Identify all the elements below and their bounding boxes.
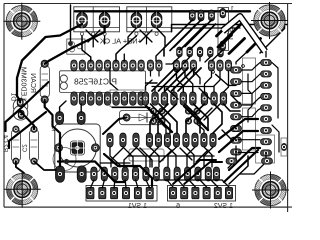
- trimmer P1 outline: [55, 124, 100, 172]
- wire thick BR9: [224, 150, 258, 182]
- label SV2 (mirrored): [214, 203, 233, 210]
- resistor R5: [40, 60, 49, 103]
- wire thick BR5: [184, 162, 222, 184]
- capacitor C1 outline: [53, 148, 76, 171]
- wire thick TR1: [218, 22, 244, 48]
- svg-text:LED03MM: LED03MM: [20, 67, 27, 100]
- pad row mid: [107, 133, 216, 147]
- wire pad stubs mid band: [146, 71, 194, 92]
- wire thick TR2: [229, 39, 245, 54]
- wire block to IC: [82, 36, 147, 61]
- terminal pad P1: [76, 12, 89, 29]
- wire thick L5: [45, 100, 60, 166]
- wire thick L3b: [9, 112, 46, 148]
- capacitor C5 pads: [150, 108, 165, 124]
- resistor R3: [11, 126, 20, 164]
- label R2: [2, 134, 8, 152]
- svg-text:+NE+ AL CK: +NE+ AL CK: [100, 37, 142, 46]
- IC U1 label PIC16F258 (mirrored): [74, 76, 117, 86]
- terminal pad P4: [150, 12, 163, 29]
- header SV2 pads: [169, 187, 232, 199]
- wire thick BR4: [173, 160, 216, 184]
- capacitor pads bottom: [56, 166, 87, 183]
- header J3 pads: [189, 10, 214, 21]
- wire BR7: [240, 152, 266, 174]
- svg-text:1 SV2: 1 SV2: [214, 203, 233, 210]
- svg-text:1 SV1: 1 SV1: [128, 203, 147, 210]
- via BL: [64, 159, 69, 164]
- svg-text:D1: D1: [10, 92, 17, 101]
- wire bundle right: [236, 42, 279, 152]
- svg-text:6: 6: [176, 203, 180, 210]
- label 1 top right: [230, 6, 234, 13]
- wire thick L1: [17, 24, 82, 101]
- header SV1 outline: [86, 186, 157, 202]
- wire thick BL3: [58, 162, 125, 183]
- fiducial M2: [251, 0, 288, 55]
- wire top bus: [75, 10, 250, 12]
- fiducial M3: [4, 156, 41, 223]
- wire trimmer to D2: [103, 118, 127, 135]
- header SV2 outline: [168, 186, 236, 202]
- IC U1 body outline: [60, 71, 146, 93]
- wire thick BL4: [104, 154, 152, 186]
- wire thick BL2: [34, 161, 56, 170]
- trimmer P1 side pads: [55, 144, 100, 152]
- pad row J4: [177, 47, 224, 57]
- diode D2: [119, 110, 162, 124]
- jumper band W1 chevron: [223, 17, 266, 52]
- wire thick BL1: [16, 161, 24, 173]
- wire squiggle: [248, 74, 252, 122]
- extra pads bottom right: [226, 158, 273, 164]
- IC51 pads: [220, 8, 225, 50]
- terminal pad P2: [98, 12, 111, 29]
- trimmer P1 center pad: [70, 141, 85, 156]
- wire bundle mid2: [112, 104, 240, 133]
- svg-text:R2 C4: R2 C4: [2, 134, 8, 152]
- wire BR8: [229, 156, 248, 184]
- wire thick BR2: [219, 131, 258, 152]
- relay K2 outline right: [256, 135, 275, 163]
- svg-text:1: 1: [230, 6, 234, 13]
- wire bundle mid1: [146, 68, 237, 92]
- IC U1 top pad row: [71, 60, 232, 71]
- label LED03MM: [20, 67, 27, 100]
- wire mid horizontal 2: [172, 27, 241, 29]
- IC U1 bottom pad row: [71, 92, 227, 106]
- wire TR4: [260, 22, 285, 53]
- label C2: [21, 144, 27, 152]
- fiducial M1: [3, 0, 40, 55]
- board outline: [4, 4, 292, 213]
- label D1: [10, 92, 17, 101]
- wire bundle bottom: [90, 180, 229, 188]
- wire IC right: [110, 68, 157, 107]
- wire L4: [19, 110, 34, 129]
- capacitor C6 pads: [185, 108, 200, 124]
- svg-text:RCAN: RCAN: [29, 73, 36, 93]
- wire thick BR1: [219, 119, 258, 139]
- label RCAN: [29, 73, 36, 93]
- wire cross links right: [238, 140, 260, 153]
- relay K1 outline: [67, 39, 85, 54]
- wire thick TR3: [247, 39, 261, 53]
- wire thick BR3: [229, 148, 260, 170]
- wire BR6: [228, 146, 236, 168]
- transistor IC51 outline: [218, 8, 229, 51]
- fiducial M4: [252, 157, 289, 224]
- outline right components: [243, 58, 288, 156]
- wire bundle lower mid: [100, 147, 214, 167]
- label SV1 (mirrored): [128, 203, 147, 210]
- terminal block X1: [74, 7, 120, 32]
- wire bundle top-mid: [86, 20, 232, 64]
- wire thick TR0: [217, 30, 224, 37]
- silkscreen label (mirrored): [100, 37, 142, 46]
- header SV1 pads: [87, 187, 154, 199]
- mounting holes under blocks: [80, 32, 158, 35]
- svg-text:C2: C2: [21, 144, 27, 152]
- pad column right B: [261, 60, 272, 157]
- label 6 (mirrored): [176, 203, 180, 210]
- wire trimmer top links: [60, 101, 82, 112]
- diode D1 LED: [13, 98, 28, 120]
- pad column right A: [231, 67, 242, 155]
- label IC51 (mirrored, vertical): [225, 23, 234, 40]
- wire block to IC: [82, 36, 147, 61]
- wire L6: [70, 5, 72, 43]
- component outline mid: [129, 149, 164, 161]
- wire mesh extra: [166, 88, 240, 139]
- label 2 (mirrored): [51, 126, 55, 133]
- pad right edge: [282, 144, 287, 151]
- terminal pad P3: [130, 12, 143, 29]
- trimmer P1 top pads: [56, 112, 86, 125]
- wire thick L2: [45, 26, 105, 64]
- pad row lower: [91, 167, 220, 181]
- wire mid horizontal 1: [172, 25, 288, 32]
- terminal block X2: [127, 7, 172, 32]
- wire thick L3: [6, 82, 49, 131]
- via top left: [68, 41, 73, 46]
- resistor R4: [30, 126, 39, 164]
